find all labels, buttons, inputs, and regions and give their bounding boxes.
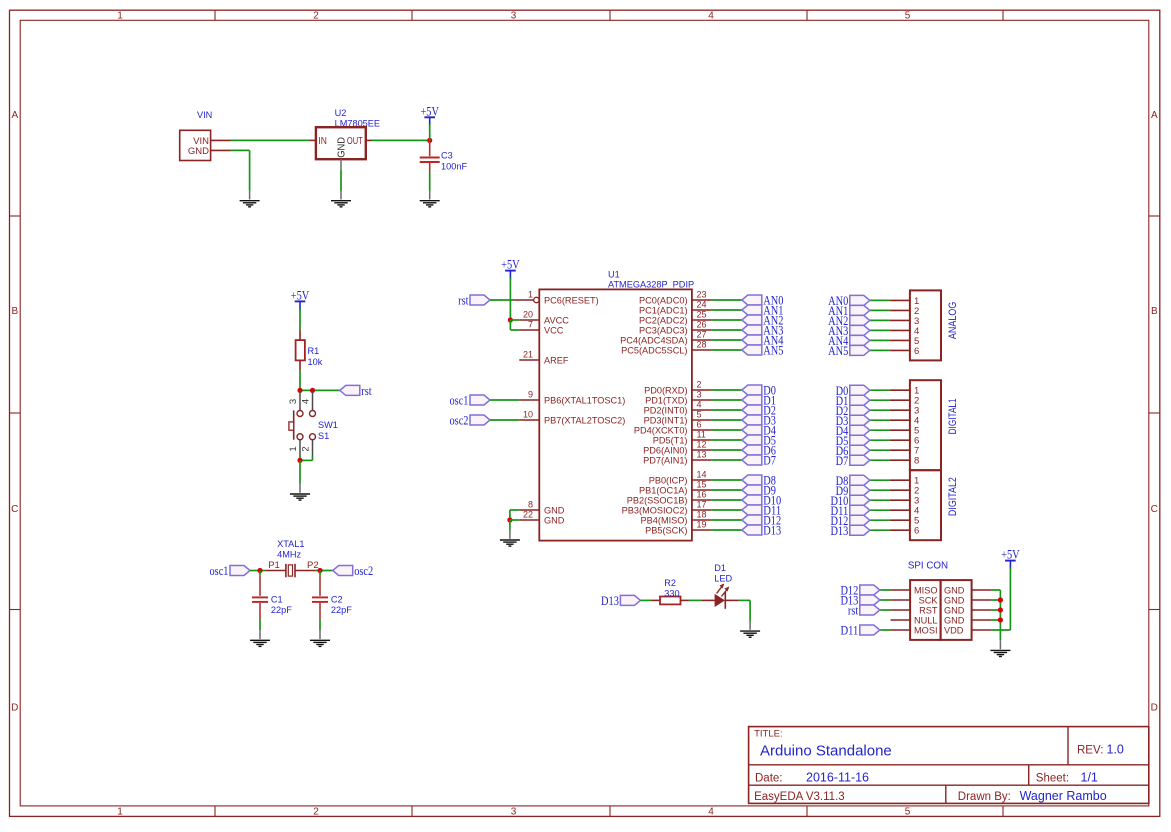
svg-text:4: 4 <box>301 399 312 404</box>
svg-text:PC0(ADC0): PC0(ADC0) <box>639 296 688 306</box>
svg-text:osc2: osc2 <box>354 564 373 578</box>
svg-text:5: 5 <box>697 410 702 420</box>
svg-text:PB4(MISO): PB4(MISO) <box>641 516 688 526</box>
svg-text:GND: GND <box>544 506 565 516</box>
svg-text:4: 4 <box>708 11 714 22</box>
svg-text:PC4(ADC4SDA): PC4(ADC4SDA) <box>620 336 687 346</box>
svg-text:D1: D1 <box>714 563 726 573</box>
svg-text:11: 11 <box>697 430 706 440</box>
svg-text:LED: LED <box>714 573 732 583</box>
svg-text:VIN: VIN <box>197 110 212 120</box>
svg-text:D11: D11 <box>840 624 858 638</box>
svg-text:20: 20 <box>523 310 533 320</box>
svg-text:+5V: +5V <box>291 288 310 302</box>
svg-text:S1: S1 <box>318 431 329 441</box>
svg-text:GND: GND <box>944 586 965 596</box>
svg-text:PC6(RESET): PC6(RESET) <box>544 296 599 306</box>
svg-text:XTAL1: XTAL1 <box>277 539 304 549</box>
svg-text:U2: U2 <box>335 108 347 118</box>
svg-text:330: 330 <box>664 588 679 598</box>
svg-text:PC1(ADC1): PC1(ADC1) <box>639 306 688 316</box>
svg-text:DIGITAL2: DIGITAL2 <box>947 477 959 516</box>
svg-text:2: 2 <box>697 380 702 390</box>
svg-text:AREF: AREF <box>544 356 569 366</box>
svg-text:D13: D13 <box>763 524 781 538</box>
svg-text:1: 1 <box>288 446 299 451</box>
svg-text:PB7(XTAL2TOSC2): PB7(XTAL2TOSC2) <box>544 416 625 426</box>
svg-text:1: 1 <box>117 806 123 817</box>
svg-text:C1: C1 <box>271 595 283 605</box>
svg-text:3: 3 <box>697 390 702 400</box>
svg-text:7: 7 <box>528 320 533 330</box>
svg-text:26: 26 <box>697 320 707 330</box>
svg-text:RST: RST <box>919 606 938 616</box>
svg-text:2: 2 <box>313 806 319 817</box>
svg-text:15: 15 <box>697 480 707 490</box>
svg-text:Arduino Standalone: Arduino Standalone <box>760 743 892 760</box>
svg-text:3: 3 <box>511 11 517 22</box>
svg-text:GND: GND <box>944 596 965 606</box>
svg-text:A: A <box>1151 110 1158 121</box>
svg-text:MISO: MISO <box>914 586 937 596</box>
svg-text:PC5(ADC5SCL): PC5(ADC5SCL) <box>621 346 687 356</box>
svg-text:D13: D13 <box>601 594 619 608</box>
svg-text:R2: R2 <box>664 578 676 588</box>
svg-text:6: 6 <box>914 346 919 357</box>
svg-text:1: 1 <box>528 290 533 300</box>
svg-text:6: 6 <box>914 526 919 537</box>
svg-text:+5V: +5V <box>1001 548 1020 562</box>
svg-text:3: 3 <box>511 806 517 817</box>
svg-text:16: 16 <box>697 490 707 500</box>
svg-text:PD2(INT0): PD2(INT0) <box>644 406 688 416</box>
svg-text:100nF: 100nF <box>441 161 467 171</box>
svg-text:GND: GND <box>336 137 347 158</box>
svg-text:IN: IN <box>318 136 327 147</box>
svg-text:D: D <box>11 703 18 714</box>
svg-text:13: 13 <box>697 450 707 460</box>
svg-text:24: 24 <box>697 300 707 310</box>
svg-text:VCC: VCC <box>544 326 564 336</box>
svg-text:4: 4 <box>697 400 702 410</box>
svg-text:23: 23 <box>697 290 707 300</box>
svg-text:P1: P1 <box>268 560 280 571</box>
svg-text:OUT: OUT <box>347 136 363 147</box>
svg-text:NULL: NULL <box>914 616 938 626</box>
svg-text:1.0: 1.0 <box>1107 743 1124 757</box>
svg-text:D7: D7 <box>836 454 849 468</box>
svg-text:PB1(OC1A): PB1(OC1A) <box>639 486 688 496</box>
svg-text:U1: U1 <box>608 270 620 280</box>
svg-text:4: 4 <box>708 806 714 817</box>
svg-text:AN5: AN5 <box>763 344 783 358</box>
svg-text:PB3(MOSIOC2): PB3(MOSIOC2) <box>622 506 688 516</box>
svg-text:B: B <box>11 306 18 317</box>
svg-text:GND: GND <box>944 606 965 616</box>
svg-text:9: 9 <box>528 390 533 400</box>
svg-text:PB6(XTAL1TOSC1): PB6(XTAL1TOSC1) <box>544 396 625 406</box>
svg-text:D: D <box>1151 703 1158 714</box>
svg-text:R1: R1 <box>308 346 320 356</box>
svg-text:ATMEGA328P_PDIP: ATMEGA328P_PDIP <box>608 280 694 290</box>
svg-text:PC3(ADC3): PC3(ADC3) <box>639 326 688 336</box>
svg-text:SW1: SW1 <box>318 420 338 430</box>
svg-text:AVCC: AVCC <box>544 316 569 326</box>
svg-text:3: 3 <box>288 399 299 404</box>
svg-text:17: 17 <box>697 500 707 510</box>
svg-text:osc1: osc1 <box>449 394 468 408</box>
svg-text:D13: D13 <box>830 524 848 538</box>
svg-text:Drawn By:: Drawn By: <box>958 791 1011 803</box>
svg-text:P2: P2 <box>307 560 319 571</box>
svg-text:PD0(RXD): PD0(RXD) <box>644 386 687 396</box>
svg-text:PD5(T1): PD5(T1) <box>653 436 688 446</box>
svg-text:GND: GND <box>188 146 209 157</box>
svg-text:8: 8 <box>914 456 919 467</box>
svg-text:osc2: osc2 <box>449 414 468 428</box>
svg-text:ANALOG: ANALOG <box>947 302 959 339</box>
svg-text:GND: GND <box>544 516 565 526</box>
svg-text:6: 6 <box>697 420 702 430</box>
svg-text:B: B <box>1151 306 1158 317</box>
svg-text:rst: rst <box>848 604 859 618</box>
svg-text:A: A <box>11 110 18 121</box>
svg-text:Wagner Rambo: Wagner Rambo <box>1020 789 1107 803</box>
svg-text:28: 28 <box>697 340 707 350</box>
svg-text:C3: C3 <box>441 151 453 161</box>
svg-text:C: C <box>1151 504 1158 515</box>
svg-text:10k: 10k <box>308 357 323 367</box>
svg-text:18: 18 <box>697 510 707 520</box>
svg-text:5: 5 <box>905 806 911 817</box>
svg-text:VDD: VDD <box>944 626 964 636</box>
svg-text:+5V: +5V <box>420 104 439 118</box>
svg-text:EasyEDA V3.11.3: EasyEDA V3.11.3 <box>754 791 845 803</box>
svg-text:Sheet:: Sheet: <box>1036 772 1069 784</box>
svg-text:D7: D7 <box>763 454 776 468</box>
svg-text:2016-11-16: 2016-11-16 <box>806 770 869 784</box>
svg-text:C: C <box>11 504 18 515</box>
svg-text:14: 14 <box>697 470 707 480</box>
svg-text:PB5(SCK): PB5(SCK) <box>645 526 687 536</box>
svg-text:12: 12 <box>697 440 707 450</box>
svg-text:21: 21 <box>523 350 533 360</box>
svg-text:1/1: 1/1 <box>1081 770 1098 784</box>
svg-text:10: 10 <box>523 410 533 420</box>
svg-text:25: 25 <box>697 310 707 320</box>
svg-text:TITLE:: TITLE: <box>754 729 783 740</box>
svg-text:PB2(SSOC1B): PB2(SSOC1B) <box>627 496 688 506</box>
svg-text:19: 19 <box>697 520 707 530</box>
svg-text:GND: GND <box>944 616 965 626</box>
svg-text:Date:: Date: <box>755 772 783 784</box>
svg-text:MOSI: MOSI <box>914 626 937 636</box>
svg-text:27: 27 <box>697 330 707 340</box>
svg-text:PD6(AIN0): PD6(AIN0) <box>643 446 687 456</box>
svg-text:PB0(ICP): PB0(ICP) <box>649 476 688 486</box>
svg-text:5: 5 <box>905 11 911 22</box>
svg-text:osc1: osc1 <box>209 564 228 578</box>
svg-text:22: 22 <box>523 510 533 520</box>
svg-text:PD7(AIN1): PD7(AIN1) <box>643 456 687 466</box>
svg-text:AN5: AN5 <box>828 344 848 358</box>
svg-text:22pF: 22pF <box>331 605 352 615</box>
svg-text:C2: C2 <box>331 595 343 605</box>
svg-text:rst: rst <box>361 384 372 398</box>
svg-text:2: 2 <box>313 11 319 22</box>
svg-text:8: 8 <box>528 500 533 510</box>
svg-text:PD1(TXD): PD1(TXD) <box>645 396 687 406</box>
svg-text:PC2(ADC2): PC2(ADC2) <box>639 316 688 326</box>
svg-text:2: 2 <box>301 446 312 451</box>
svg-text:+5V: +5V <box>501 258 520 272</box>
svg-text:PD4(XCKT0): PD4(XCKT0) <box>634 426 688 436</box>
svg-text:rst: rst <box>458 294 469 308</box>
svg-text:22pF: 22pF <box>271 605 292 615</box>
svg-text:1: 1 <box>117 11 123 22</box>
svg-text:SPI CON: SPI CON <box>908 561 948 572</box>
svg-text:4MHz: 4MHz <box>277 550 301 560</box>
svg-text:DIGITAL1: DIGITAL1 <box>947 398 959 434</box>
svg-text:REV:: REV: <box>1077 745 1103 757</box>
svg-text:PD3(INT1): PD3(INT1) <box>644 416 688 426</box>
svg-text:SCK: SCK <box>919 596 939 606</box>
